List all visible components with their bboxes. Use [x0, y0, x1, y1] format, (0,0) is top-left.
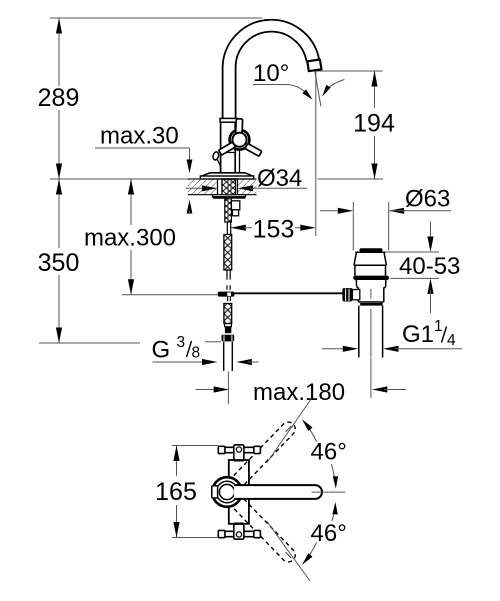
swivel range dashed spout (lower, +46°) — [228, 493, 298, 564]
deck cross-section (hatched counter) — [188, 179, 257, 195]
aerator (spout outlet, tilted 10°) — [307, 60, 321, 72]
dimension 153 (spout reach) — [230, 216, 315, 244]
top-view handle (upper) — [218, 445, 260, 461]
dimension max.300 (deck to pop-up rod) — [84, 179, 220, 295]
spout tube (gooseneck arc + riser) — [223, 20, 320, 119]
svg-text:46°: 46° — [311, 439, 347, 466]
riser collar joint — [220, 118, 237, 122]
dimension 40-53 (counter thickness at drain) — [385, 222, 461, 314]
dimension max.30 (deck clamping thickness) — [95, 123, 192, 215]
base flange — [200, 173, 254, 179]
dimension Ø34 (deck hole diameter) — [186, 165, 308, 192]
drain O-ring seal — [353, 276, 389, 280]
threaded shank through deck — [222, 179, 236, 197]
top reference line (faucet total height level) — [50, 17, 262, 19]
svg-text:40-53: 40-53 — [399, 253, 460, 280]
braided supply hose upper segment — [224, 235, 232, 271]
svg-text:Ø34: Ø34 — [257, 165, 302, 192]
svg-text:350: 350 — [38, 249, 80, 277]
deck reference line — [50, 178, 383, 180]
svg-text:10°: 10° — [253, 60, 289, 87]
10° label and leader arcs — [253, 60, 345, 100]
connector pipe — [227, 222, 230, 235]
dimension max.180 (faucet to drain distance) — [196, 358, 407, 407]
swivel range dashed spout (upper, -46°) — [228, 419, 298, 490]
spout-tip horizontal reference line — [316, 70, 383, 72]
spout-tip vertical reference line — [315, 71, 317, 236]
dimension Ø63 (drain flange diameter) — [320, 186, 451, 251]
top-view body — [229, 460, 249, 524]
svg-text:max.180: max.180 — [253, 379, 345, 406]
dimension 194 (tip height above deck) — [353, 71, 395, 179]
svg-text:46°: 46° — [311, 520, 347, 547]
pop-up pull rod through shank — [228, 180, 231, 222]
svg-text:max.30: max.30 — [100, 123, 179, 150]
drain rod knob — [342, 288, 359, 302]
braided supply hose lower segment — [224, 304, 232, 324]
dimension 289 (left, top line to deck) — [38, 18, 80, 179]
supply pipe end — [224, 342, 233, 371]
46° annotation arc (upper) — [302, 419, 347, 489]
tilted water-stream line (10° from vertical) — [315, 72, 321, 107]
hose pipe between segments (broken) — [227, 270, 230, 290]
drain pop-up cap — [360, 248, 383, 251]
svg-text:Ø63: Ø63 — [405, 186, 450, 213]
handle stem line down to base — [239, 148, 241, 173]
dimension 165 (top-view height) — [155, 446, 218, 538]
46° annotation arc (lower) — [302, 502, 347, 565]
46° extension line (upper) — [267, 399, 312, 463]
hose end fitting and G3/8 nut — [222, 324, 235, 342]
46° extension line (lower) — [267, 522, 310, 582]
rod cross fitting on hose — [218, 292, 235, 301]
drain body — [356, 280, 385, 306]
drain body centerline dash — [370, 289, 372, 299]
svg-text:max.300: max.300 — [84, 225, 176, 252]
svg-text:3: 3 — [177, 334, 186, 351]
pop-up rod (horizontal) — [234, 292, 343, 294]
svg-text:4: 4 — [447, 332, 456, 349]
pop-up lever knob (left of body) — [212, 151, 221, 166]
cross handle (front view) — [219, 119, 262, 157]
dimension 350 (left, deck to hose end) — [38, 179, 221, 343]
svg-text:289: 289 — [38, 84, 80, 112]
threaded shank tail + side bracket — [225, 199, 240, 222]
solid spout (top view, pointing right) — [234, 485, 322, 499]
svg-text:1: 1 — [434, 318, 443, 335]
faucet body — [221, 122, 236, 173]
svg-text:G1: G1 — [402, 321, 434, 348]
drain tailpipe — [359, 306, 383, 358]
drain flange — [354, 252, 386, 275]
svg-text:194: 194 — [353, 110, 395, 138]
G 3/8 label (supply hose thread) — [152, 334, 259, 365]
svg-text:153: 153 — [253, 216, 295, 244]
spout tip centerline (0° reference) — [312, 491, 346, 493]
svg-text:G: G — [152, 337, 171, 364]
escutcheon / swivel bearing circles — [212, 477, 242, 507]
svg-text:165: 165 — [155, 478, 197, 506]
top-view handle (lower) — [218, 523, 260, 539]
G1 1/4 label (drain thread) — [322, 318, 462, 352]
svg-text:8: 8 — [192, 345, 201, 362]
mounting washer and nut under deck — [213, 195, 246, 199]
